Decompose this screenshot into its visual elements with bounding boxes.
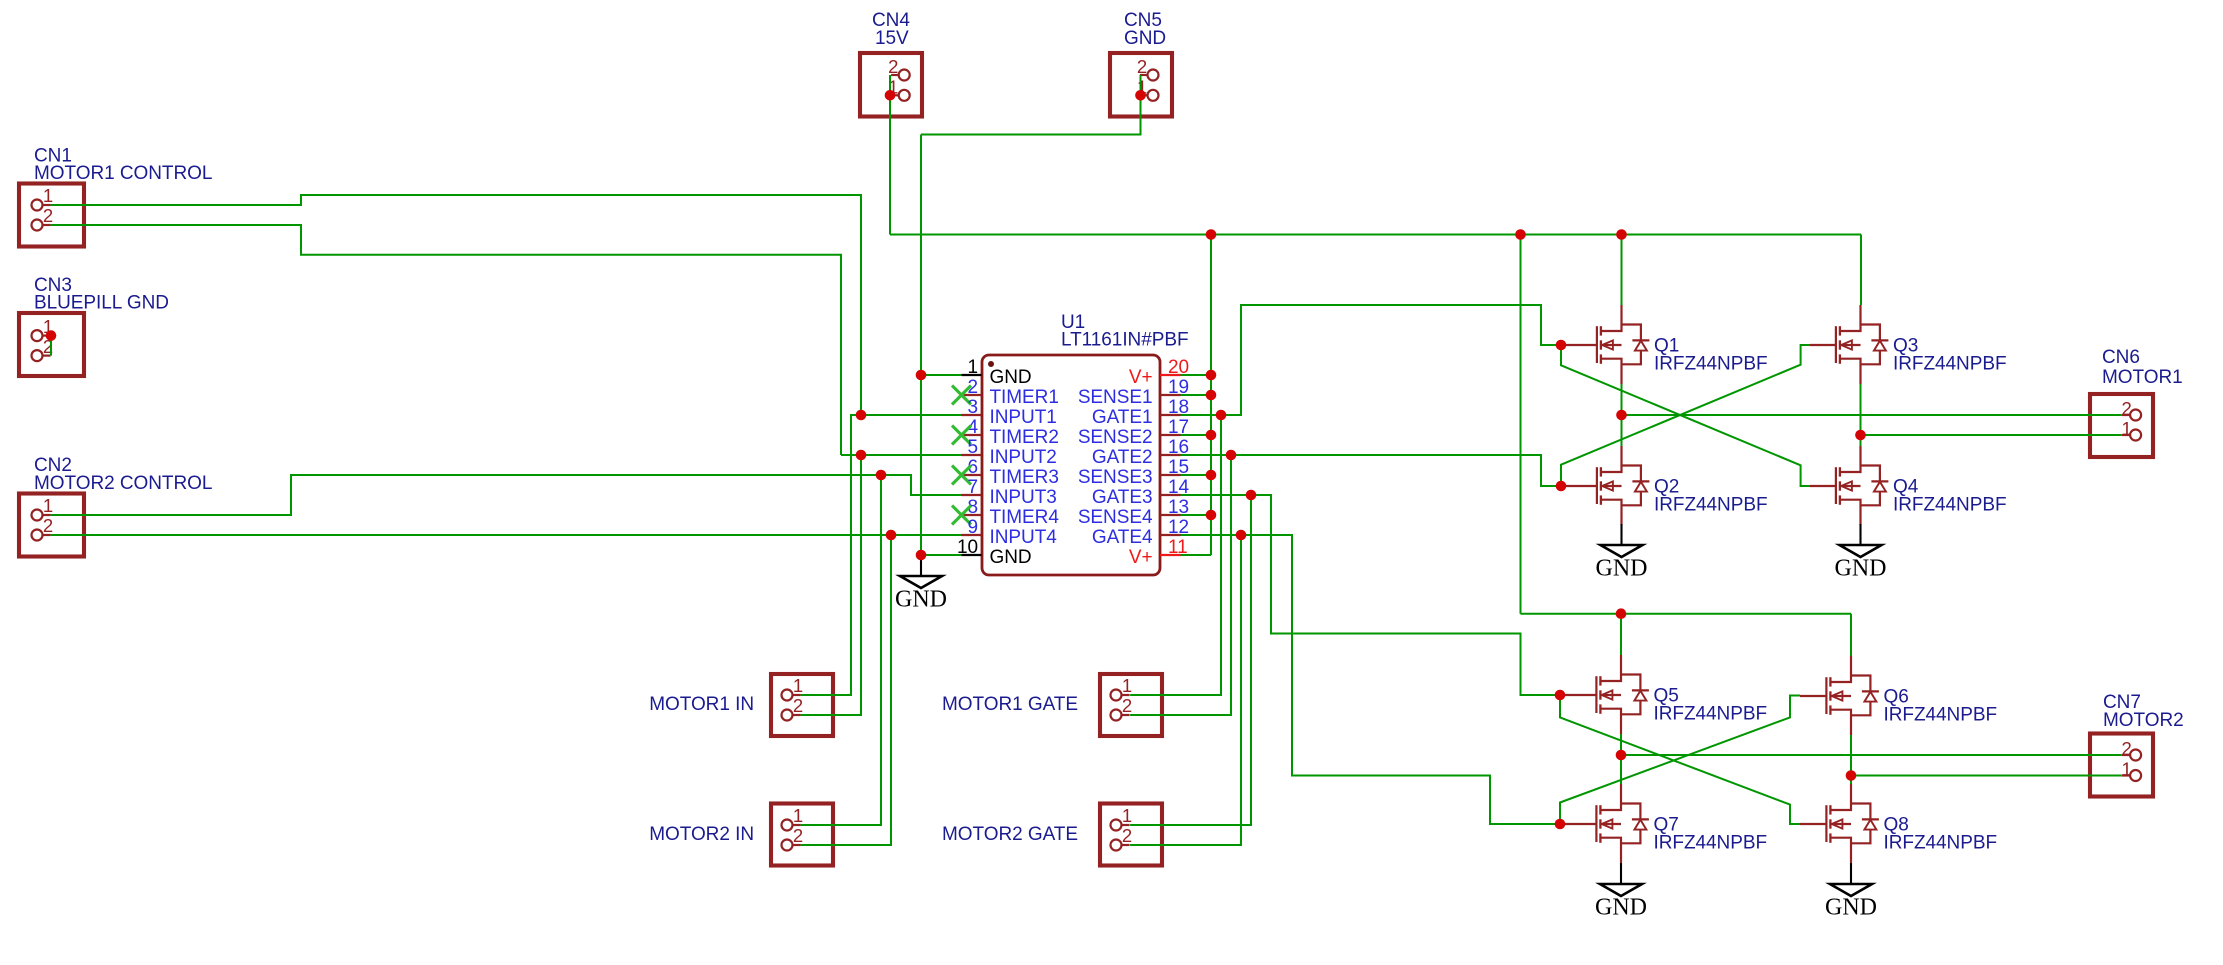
pin number 2 of CN2 bbox=[43, 515, 53, 536]
pin number 4 of U1 bbox=[967, 417, 978, 438]
label MOTOR2 IN bbox=[649, 824, 754, 845]
transistor Q1 IRFZ44NPBF bbox=[1597, 305, 1650, 384]
no-connect cross on pin 4 of U1 bbox=[952, 426, 971, 445]
connector CN2 pin 1 bbox=[32, 510, 51, 521]
wire Q3 gate stub bbox=[1810, 344, 1836, 346]
junction SENSE2 bbox=[1206, 430, 1217, 441]
pin name TIMER3 (pin 6) of U1 bbox=[990, 467, 1059, 488]
connector MOTOR2GATE pin 2 bbox=[1111, 840, 1130, 851]
pin number 1 of MOTOR2GATE bbox=[1122, 805, 1132, 826]
connector CN4 pin 2 bbox=[891, 70, 910, 81]
svg-text:IRFZ44NPBF: IRFZ44NPBF bbox=[1893, 354, 2007, 375]
svg-text:7: 7 bbox=[967, 477, 978, 498]
junction V+ rail / Q1 drain bbox=[1616, 229, 1627, 240]
junction GATE4 tee bbox=[1236, 530, 1247, 541]
wire SENSE4 pin13 to V+ bus bbox=[1181, 514, 1212, 516]
label Q4 bbox=[1893, 477, 1919, 498]
wire GND to pin10 bbox=[921, 554, 962, 556]
connector CN5 pin 1 bbox=[1140, 90, 1159, 101]
label Q3 bbox=[1893, 336, 1918, 357]
label CN6 of CN6 bbox=[2102, 347, 2140, 368]
connector MOTOR1IN pin 1 bbox=[782, 690, 801, 701]
no-connect cross on pin 2 of U1 bbox=[952, 386, 971, 405]
label MOTOR1 CONTROL of CN1 bbox=[34, 163, 212, 184]
svg-text:MOTOR2 GATE: MOTOR2 GATE bbox=[942, 824, 1078, 845]
pin name SENSE2 (pin 17) of U1 bbox=[1078, 427, 1153, 448]
label Q8 bbox=[1884, 815, 1909, 836]
svg-text:TIMER4: TIMER4 bbox=[990, 507, 1060, 528]
svg-text:2: 2 bbox=[1122, 695, 1132, 716]
connector CN6 box bbox=[2090, 394, 2153, 457]
junction V+ pin20 bbox=[1206, 370, 1217, 381]
junction GND bus pin10 bbox=[916, 550, 927, 561]
connector CN1 pin 1 bbox=[32, 200, 51, 211]
pin number 16 of U1 bbox=[1168, 437, 1189, 458]
connector MOTOR2IN box bbox=[771, 804, 833, 866]
pin name SENSE3 (pin 15) of U1 bbox=[1078, 467, 1153, 488]
svg-text:IRFZ44NPBF: IRFZ44NPBF bbox=[1654, 704, 1768, 725]
pin name GND (pin 1) of U1 bbox=[990, 367, 1032, 388]
wire V+ to Q6 drain bbox=[1850, 614, 1852, 656]
wire V+ to Q3 drain bbox=[1860, 235, 1862, 306]
pin number 5 of U1 bbox=[967, 437, 978, 458]
wire V+ lower rail bbox=[1521, 613, 1852, 615]
svg-text:2: 2 bbox=[2121, 398, 2131, 419]
svg-text:CN6: CN6 bbox=[2102, 347, 2140, 368]
pin 7 of U1 bbox=[962, 494, 982, 496]
pin number 13 of U1 bbox=[1168, 497, 1189, 518]
wire Q5 gate stub bbox=[1564, 694, 1597, 696]
pin name TIMER4 (pin 8) of U1 bbox=[990, 507, 1060, 528]
wire 15V CN4 pin2 to pin1 bbox=[889, 75, 891, 95]
junction INPUT4 node bbox=[886, 530, 897, 541]
svg-text:LT1161IN#PBF: LT1161IN#PBF bbox=[1061, 330, 1189, 351]
junction INPUT1 node bbox=[856, 410, 867, 421]
wire GATE1 riser to MOTOR1 GATE pin1 bbox=[1130, 415, 1221, 695]
wire INPUT2 into pin5 bbox=[841, 454, 962, 456]
svg-text:GATE3: GATE3 bbox=[1092, 487, 1153, 508]
pin number 8 of U1 bbox=[967, 497, 978, 518]
junction GATE1 tee bbox=[1216, 410, 1227, 421]
no-connect cross on pin 6 of U1 bbox=[952, 466, 971, 485]
wire CN3 pin1-pin2 tie bbox=[50, 336, 52, 356]
wire INPUT1 into pin3 bbox=[861, 414, 962, 416]
junction GND bus pin1 bbox=[916, 370, 927, 381]
label BLUEPILL GND of CN3 bbox=[34, 293, 169, 314]
pin name GATE3 (pin 14) of U1 bbox=[1092, 487, 1153, 508]
pin 19 of U1 bbox=[1160, 394, 1181, 396]
wire SENSE2 pin17 to V+ bus bbox=[1181, 434, 1212, 436]
pin number 20 of U1 bbox=[1168, 357, 1189, 378]
pin 13 of U1 bbox=[1160, 514, 1181, 516]
label CN7 of CN7 bbox=[2103, 692, 2141, 713]
pin number 1 of MOTOR1IN bbox=[793, 675, 803, 696]
junction CN5 pin1 bbox=[1135, 90, 1146, 101]
svg-text:1: 1 bbox=[1122, 675, 1132, 696]
svg-text:SENSE2: SENSE2 bbox=[1078, 427, 1153, 448]
junction node MOTOR2-A bbox=[1616, 750, 1627, 761]
svg-text:BLUEPILL GND: BLUEPILL GND bbox=[34, 293, 169, 314]
svg-text:GATE1: GATE1 bbox=[1092, 407, 1153, 428]
svg-text:2: 2 bbox=[1122, 825, 1132, 846]
wire V+ bus right of U1 bbox=[1210, 235, 1212, 556]
value IRFZ44NPBF of Q5 bbox=[1654, 704, 1768, 725]
pin number 12 of U1 bbox=[1168, 517, 1189, 538]
junction Q5 gate bbox=[1555, 690, 1566, 701]
value IRFZ44NPBF of Q1 bbox=[1654, 354, 1768, 375]
wire INPUT2 branch to MOTOR1 IN pin2 bbox=[801, 455, 861, 715]
svg-text:1: 1 bbox=[43, 185, 53, 206]
pin number 11 of U1 bbox=[1168, 537, 1188, 558]
wire GATE3 Q5 gate to Q8 gate diagonal bbox=[1560, 695, 1800, 824]
label GND of CN5 bbox=[1124, 28, 1166, 49]
pin name GND (pin 10) of U1 bbox=[990, 547, 1032, 568]
wire V+ to Q5 drain bbox=[1620, 614, 1622, 655]
wire GATE2 Q2 gate to Q3 gate diagonal bbox=[1561, 345, 1810, 486]
pin number 18 of U1 bbox=[1168, 397, 1189, 418]
svg-text:GND: GND bbox=[1835, 556, 1887, 582]
pin 3 of U1 bbox=[962, 414, 982, 416]
connector CN7 pin 2 bbox=[2122, 750, 2141, 761]
label MOTOR2 GATE bbox=[942, 824, 1078, 845]
pin number 1 of CN7 bbox=[2121, 759, 2131, 780]
connector CN1 box bbox=[19, 184, 84, 247]
connector CN5 pin 2 bbox=[1140, 70, 1159, 81]
svg-text:SENSE4: SENSE4 bbox=[1078, 507, 1153, 528]
svg-text:SENSE3: SENSE3 bbox=[1078, 467, 1153, 488]
pin 5 of U1 bbox=[962, 454, 982, 456]
pin number 9 of U1 bbox=[967, 517, 978, 538]
wire GND CN5 down-left bbox=[921, 95, 1141, 134]
pin number 2 of MOTOR1GATE bbox=[1122, 695, 1132, 716]
junction node MOTOR2-B bbox=[1846, 770, 1857, 781]
pin 11 of U1 bbox=[1160, 554, 1181, 556]
pin name SENSE1 (pin 19) of U1 bbox=[1078, 387, 1153, 408]
wire V+ pin20 bbox=[1181, 374, 1212, 376]
pin 12 of U1 bbox=[1160, 534, 1181, 536]
wire GND bus to U1 bbox=[920, 135, 922, 556]
wire V+ pin11 bbox=[1181, 554, 1212, 556]
label CN1 of CN1 bbox=[34, 145, 72, 166]
wire INPUT1 from CN1 pin1 bbox=[51, 195, 861, 415]
pin 16 of U1 bbox=[1160, 454, 1181, 456]
junction V+ lower / Q5 drain bbox=[1616, 608, 1627, 619]
svg-text:15V: 15V bbox=[875, 28, 909, 49]
wire INPUT1 branch to MOTOR1 IN pin1 bbox=[801, 415, 861, 695]
pin 4 of U1 bbox=[962, 434, 982, 436]
transistor Q7 IRFZ44NPBF bbox=[1596, 784, 1649, 863]
svg-text:IRFZ44NPBF: IRFZ44NPBF bbox=[1654, 495, 1768, 516]
pin 18 of U1 bbox=[1160, 414, 1181, 416]
junction SENSE1 bbox=[1206, 390, 1217, 401]
wire Q7 gate stub bbox=[1564, 823, 1597, 825]
svg-text:INPUT4: INPUT4 bbox=[990, 527, 1058, 548]
transistor Q2 IRFZ44NPBF bbox=[1597, 446, 1650, 525]
junction SENSE3 bbox=[1206, 470, 1217, 481]
svg-text:IRFZ44NPBF: IRFZ44NPBF bbox=[1654, 833, 1768, 854]
label Q6 bbox=[1884, 687, 1909, 708]
value IRFZ44NPBF of Q8 bbox=[1884, 833, 1998, 854]
pin name INPUT4 (pin 9) of U1 bbox=[990, 527, 1058, 548]
connector CN3 box bbox=[19, 313, 84, 376]
connector MOTOR1GATE pin 2 bbox=[1111, 710, 1130, 721]
pin number 14 of U1 bbox=[1168, 477, 1190, 498]
svg-text:GND: GND bbox=[895, 587, 947, 613]
pin number 2 of U1 bbox=[967, 377, 978, 398]
wire Q8 gate stub bbox=[1800, 823, 1827, 825]
svg-text:TIMER1: TIMER1 bbox=[990, 387, 1059, 408]
wire MOTOR1 Q3 source to Q4 drain bbox=[1860, 384, 1862, 446]
label CN5 of CN5 bbox=[1124, 10, 1162, 31]
connector CN5 box bbox=[1110, 53, 1172, 117]
pin 17 of U1 bbox=[1160, 434, 1181, 436]
wire GND to pin1 bbox=[921, 374, 962, 376]
label MOTOR1 GATE bbox=[942, 694, 1078, 715]
value IRFZ44NPBF of Q3 bbox=[1893, 354, 2007, 375]
ground GND at Q2 bbox=[1596, 524, 1648, 582]
pin 1 of U1 bbox=[962, 374, 982, 376]
pin number 19 of U1 bbox=[1168, 377, 1189, 398]
pin 6 of U1 bbox=[962, 474, 982, 476]
label Q1 bbox=[1654, 336, 1679, 357]
svg-text:2: 2 bbox=[1137, 56, 1147, 77]
connector MOTOR1IN pin 2 bbox=[782, 710, 801, 721]
label Q5 bbox=[1654, 686, 1679, 707]
wire MOTOR2 Q5 source to Q7 drain bbox=[1620, 734, 1622, 784]
connector CN1 pin 2 bbox=[32, 220, 51, 231]
wire MOTOR1 to CN6 pin1 bbox=[1861, 434, 2122, 436]
wire INPUT3 branch to MOTOR2 IN pin1 bbox=[801, 475, 881, 825]
pin name V+ (pin 11) of U1 bbox=[1129, 547, 1153, 568]
label U1 bbox=[1061, 312, 1085, 333]
value IRFZ44NPBF of Q4 bbox=[1893, 495, 2007, 516]
svg-text:GND: GND bbox=[990, 367, 1032, 388]
pin name SENSE4 (pin 13) of U1 bbox=[1078, 507, 1153, 528]
junction CN4 pin1 bbox=[885, 90, 896, 101]
transistor Q5 IRFZ44NPBF bbox=[1596, 655, 1649, 734]
pin number 1 of CN4 bbox=[888, 76, 898, 97]
pin number 2 of MOTOR2IN bbox=[793, 825, 803, 846]
connector CN2 pin 2 bbox=[32, 530, 51, 541]
label CN2 of CN2 bbox=[34, 455, 72, 476]
junction V+ rail / bus bbox=[1206, 229, 1217, 240]
pin number 2 of CN1 bbox=[43, 205, 53, 226]
pin 10 of U1 bbox=[962, 554, 982, 556]
IC U1 LT1161IN#PBF body bbox=[982, 355, 1160, 575]
junction Q2 gate bbox=[1556, 481, 1567, 492]
wire V+ top rail bbox=[890, 234, 1861, 236]
svg-text:GATE2: GATE2 bbox=[1092, 447, 1153, 468]
svg-text:GATE4: GATE4 bbox=[1092, 527, 1153, 548]
label CN3 of CN3 bbox=[34, 275, 72, 296]
svg-text:TIMER3: TIMER3 bbox=[990, 467, 1059, 488]
svg-text:1: 1 bbox=[2121, 759, 2131, 780]
pin number 2 of CN6 bbox=[2121, 398, 2131, 419]
wire V+ branch down to lower bridge bbox=[1520, 235, 1522, 614]
wire Q4 gate stub bbox=[1810, 485, 1836, 487]
wire Q6 gate stub bbox=[1800, 695, 1827, 697]
wire Q1 gate stub bbox=[1565, 344, 1597, 346]
pin name V+ (pin 20) of U1 bbox=[1129, 367, 1153, 388]
svg-text:TIMER2: TIMER2 bbox=[990, 427, 1059, 448]
value IRFZ44NPBF of Q2 bbox=[1654, 495, 1768, 516]
junction INPUT3 node bbox=[876, 470, 887, 481]
wire MOTOR2 to CN7 pin2 bbox=[1621, 754, 2122, 756]
pin number 1 of CN3 bbox=[43, 316, 53, 337]
ground GND at Q8 bbox=[1825, 863, 1877, 921]
wire Q2 gate stub bbox=[1565, 485, 1597, 487]
wire GATE4 from pin12 bbox=[1181, 535, 1565, 824]
svg-text:GND: GND bbox=[1595, 895, 1647, 921]
connector CN4 box bbox=[860, 53, 922, 117]
pin 14 of U1 bbox=[1160, 494, 1181, 496]
svg-text:MOTOR2 CONTROL: MOTOR2 CONTROL bbox=[34, 473, 212, 494]
svg-text:GND: GND bbox=[1596, 556, 1648, 582]
pin 15 of U1 bbox=[1160, 474, 1181, 476]
label MOTOR2 of CN7 bbox=[2103, 710, 2184, 731]
pin number 17 of U1 bbox=[1168, 417, 1189, 438]
pin number 1 of CN6 bbox=[2121, 418, 2131, 439]
transistor Q8 IRFZ44NPBF bbox=[1826, 784, 1879, 863]
wire MOTOR1 Q1 source to Q2 drain bbox=[1621, 384, 1623, 446]
wire SENSE3 pin15 to V+ bus bbox=[1181, 474, 1212, 476]
wire GATE4 Q7 gate to Q6 gate diagonal bbox=[1560, 696, 1800, 825]
pin number 2 of CN3 bbox=[43, 336, 53, 357]
transistor Q4 IRFZ44NPBF bbox=[1836, 446, 1889, 525]
wire GATE2 from pin16 bbox=[1181, 455, 1566, 486]
svg-text:1: 1 bbox=[793, 675, 803, 696]
label 15V of CN4 bbox=[875, 28, 909, 49]
junction Q1 gate bbox=[1556, 340, 1567, 351]
svg-text:2: 2 bbox=[43, 205, 53, 226]
svg-text:IRFZ44NPBF: IRFZ44NPBF bbox=[1654, 354, 1768, 375]
connector MOTOR1IN box bbox=[771, 674, 833, 736]
connector MOTOR2GATE pin 1 bbox=[1111, 820, 1130, 831]
svg-text:1: 1 bbox=[43, 495, 53, 516]
pin 20 of U1 bbox=[1160, 374, 1181, 376]
label MOTOR1 IN bbox=[649, 694, 754, 715]
pin name TIMER1 (pin 2) of U1 bbox=[990, 387, 1059, 408]
pin number 1 of CN5 bbox=[1137, 76, 1147, 97]
svg-text:5: 5 bbox=[967, 437, 978, 458]
junction INPUT2 node bbox=[856, 450, 867, 461]
pin number 3 of U1 bbox=[967, 397, 978, 418]
junction SENSE4 bbox=[1206, 510, 1217, 521]
connector CN4 pin 1 bbox=[891, 90, 910, 101]
wire GATE1 from pin18 bbox=[1181, 305, 1566, 415]
pin name TIMER2 (pin 4) of U1 bbox=[990, 427, 1059, 448]
label LT1161IN#PBF bbox=[1061, 330, 1189, 351]
pin name GATE4 (pin 12) of U1 bbox=[1092, 527, 1153, 548]
connector MOTOR2GATE box bbox=[1100, 804, 1162, 866]
connector MOTOR2IN pin 1 bbox=[782, 820, 801, 831]
connector CN3 pin 1 bbox=[32, 330, 51, 341]
ground GND at Q7 bbox=[1595, 863, 1647, 921]
junction V+ rail / lower branch bbox=[1515, 229, 1526, 240]
pin number 1 of MOTOR2IN bbox=[793, 805, 803, 826]
wire GATE3 from pin14 bbox=[1181, 495, 1565, 695]
wire INPUT3 from CN2 pin1 bbox=[51, 475, 962, 515]
connector CN6 pin 2 bbox=[2122, 410, 2141, 421]
junction Q7 gate bbox=[1555, 819, 1566, 830]
wire GATE1 Q1 gate to Q4 gate diagonal bbox=[1561, 345, 1810, 486]
pin number 2 of CN4 bbox=[888, 56, 898, 77]
connector MOTOR1GATE pin 1 bbox=[1111, 690, 1130, 701]
value IRFZ44NPBF of Q6 bbox=[1884, 705, 1998, 726]
pin number 1 of MOTOR1GATE bbox=[1122, 675, 1132, 696]
connector CN2 box bbox=[19, 494, 84, 557]
svg-text:MOTOR1: MOTOR1 bbox=[2102, 367, 2183, 388]
wire INPUT2 from CN1 pin2 bbox=[51, 225, 841, 455]
no-connect cross on pin 8 of U1 bbox=[952, 506, 971, 525]
ground GND at Q4 bbox=[1835, 524, 1887, 582]
svg-text:INPUT3: INPUT3 bbox=[990, 487, 1057, 508]
svg-text:MOTOR2 IN: MOTOR2 IN bbox=[649, 824, 754, 845]
svg-text:MOTOR1 IN: MOTOR1 IN bbox=[649, 694, 754, 715]
svg-text:2: 2 bbox=[793, 825, 803, 846]
pin name INPUT3 (pin 7) of U1 bbox=[990, 487, 1057, 508]
label Q7 bbox=[1654, 815, 1679, 836]
label CN4 of CN4 bbox=[872, 10, 910, 31]
wire GATE3 riser to MOTOR2 GATE pin1 bbox=[1130, 495, 1251, 825]
pin 2 of U1 bbox=[962, 394, 982, 396]
connector CN7 pin 1 bbox=[2122, 770, 2141, 781]
transistor Q3 IRFZ44NPBF bbox=[1836, 305, 1889, 384]
svg-text:3: 3 bbox=[967, 397, 978, 418]
wire INPUT4 branch to MOTOR2 IN pin2 bbox=[801, 535, 891, 845]
svg-text:V+: V+ bbox=[1129, 367, 1153, 388]
label MOTOR1 of CN6 bbox=[2102, 367, 2183, 388]
svg-text:IRFZ44NPBF: IRFZ44NPBF bbox=[1884, 705, 1998, 726]
junction GATE3 tee bbox=[1246, 490, 1257, 501]
connector MOTOR2IN pin 2 bbox=[782, 840, 801, 851]
ground GND at U1 pin10 bbox=[895, 555, 947, 613]
wire MOTOR2 to CN7 pin1 bbox=[1851, 775, 2122, 777]
svg-text:MOTOR2: MOTOR2 bbox=[2103, 710, 2184, 731]
connector CN7 box bbox=[2090, 734, 2153, 797]
connector CN3 pin 2 bbox=[32, 350, 51, 361]
wire 15V CN4 down bbox=[889, 95, 891, 234]
pin number 6 of U1 bbox=[967, 457, 978, 478]
pin name GATE2 (pin 16) of U1 bbox=[1092, 447, 1153, 468]
svg-text:1: 1 bbox=[1122, 805, 1132, 826]
svg-text:1: 1 bbox=[2121, 418, 2131, 439]
pin number 1 of CN2 bbox=[43, 495, 53, 516]
pin name GATE1 (pin 18) of U1 bbox=[1092, 407, 1153, 428]
pin number 15 of U1 bbox=[1168, 457, 1189, 478]
wire SENSE1 pin19 to V+ bus bbox=[1181, 394, 1212, 396]
wire GATE4 riser to MOTOR2 GATE pin2 bbox=[1130, 535, 1241, 845]
pin number 2 of CN7 bbox=[2121, 738, 2131, 759]
label Q2 bbox=[1654, 477, 1679, 498]
svg-text:IRFZ44NPBF: IRFZ44NPBF bbox=[1884, 833, 1998, 854]
connector MOTOR1GATE box bbox=[1100, 674, 1162, 736]
svg-text:2: 2 bbox=[793, 695, 803, 716]
svg-text:INPUT2: INPUT2 bbox=[990, 447, 1057, 468]
junction node MOTOR1-A bbox=[1616, 410, 1627, 421]
pin name INPUT1 (pin 3) of U1 bbox=[990, 407, 1057, 428]
svg-text:MOTOR1 CONTROL: MOTOR1 CONTROL bbox=[34, 163, 212, 184]
wire INPUT4 from CN2 pin2 bbox=[51, 534, 962, 536]
pin number 1 of U1 bbox=[967, 357, 978, 378]
pin name INPUT2 (pin 5) of U1 bbox=[990, 447, 1057, 468]
svg-text:SENSE1: SENSE1 bbox=[1078, 387, 1153, 408]
pin number 1 of CN1 bbox=[43, 185, 53, 206]
wire V+ to Q1 drain bbox=[1621, 235, 1623, 306]
svg-text:INPUT1: INPUT1 bbox=[990, 407, 1057, 428]
svg-text:V+: V+ bbox=[1129, 547, 1153, 568]
wire GATE2 riser to MOTOR1 GATE pin2 bbox=[1130, 455, 1231, 715]
